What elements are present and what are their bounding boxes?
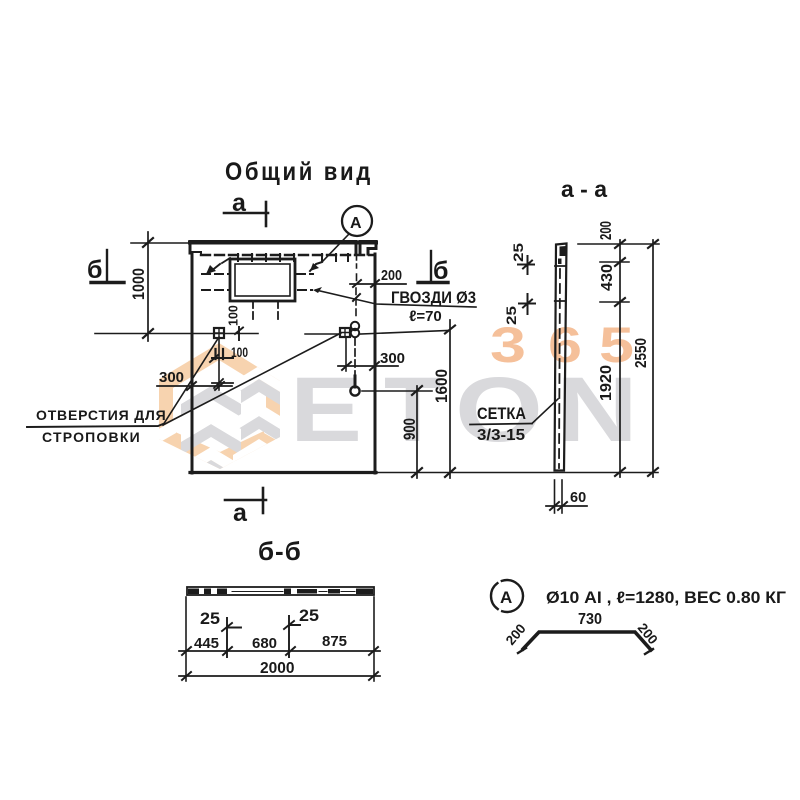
dim 1000 extension top (131, 242, 190, 244)
svg-text:Общий вид: Общий вид (225, 158, 373, 186)
dim 200 top right: line (350, 283, 406, 285)
detail A circle (491, 580, 523, 612)
setka leader (532, 399, 558, 424)
right loop square (340, 328, 350, 337)
opening rectangle outer (230, 259, 295, 301)
dim 900 vertical (416, 386, 418, 478)
dim 900 tick bottom (412, 468, 422, 477)
bb bar outline (187, 587, 374, 595)
panel right edge (374, 254, 377, 473)
leader to right loop (163, 333, 341, 425)
svg-text:730: 730 (578, 611, 602, 628)
bent bar hook left (518, 648, 526, 653)
dim 1600 vertical (449, 320, 451, 478)
aa ticks inner (615, 240, 625, 476)
svg-text:б-б: б-б (258, 536, 302, 566)
setka underline (470, 424, 532, 425)
aa ext 262 (600, 261, 629, 263)
dashed row y274 (202, 273, 230, 275)
svg-text:100: 100 (231, 345, 248, 360)
svg-text:ℓ=70: ℓ=70 (409, 308, 442, 325)
aa mesh dashed centerline (559, 269, 560, 468)
dim 300 left ticks (187, 382, 224, 390)
svg-text:875: 875 (322, 633, 347, 650)
bottom extension line (378, 472, 658, 474)
dashed arrow left (222, 258, 230, 263)
dashed stubs below opening (252, 301, 254, 322)
leader arrow zigzag (310, 262, 322, 271)
bb bar midline (232, 591, 355, 593)
svg-text:а: а (233, 499, 248, 527)
leader from circle A (322, 234, 349, 262)
section mark b right: bar (418, 281, 448, 284)
section mark b left: tick (106, 250, 108, 282)
otverstiya underline1 (27, 424, 163, 427)
dim 25 left tick (222, 618, 241, 657)
svg-text:2000: 2000 (260, 660, 294, 677)
bb ext right (373, 597, 375, 681)
watermark white chevrons (181, 366, 285, 478)
svg-text:А: А (350, 215, 362, 232)
dim 1000 tick top (143, 238, 153, 247)
svg-text:3/3-15: 3/3-15 (477, 427, 525, 444)
watermark wide white chevron (155, 419, 176, 445)
dim 300 right line (338, 365, 398, 367)
right loop rings (351, 322, 359, 330)
left loop bottom cross (212, 379, 233, 388)
dashed row y290 (202, 289, 230, 291)
svg-text:б: б (433, 257, 448, 285)
dim 900 tick top (412, 386, 422, 395)
hook extension line (362, 390, 432, 392)
watermark gray ETON letters (290, 359, 638, 461)
aa panel bar (555, 244, 567, 471)
section mark a bottom: line (225, 499, 266, 502)
leader to left loop (163, 337, 219, 425)
svg-text:а - а: а - а (561, 176, 607, 202)
aa dim 25 low tick (519, 294, 535, 314)
aa dim vertical inner (619, 240, 621, 477)
aa dim 25 top tick (518, 256, 534, 274)
svg-text:ОТВЕРСТИЯ ДЛЯ: ОТВЕРСТИЯ ДЛЯ (36, 407, 166, 423)
section mark a top: line (224, 212, 268, 215)
svg-text:СТРОПОВКИ: СТРОПОВКИ (42, 429, 141, 445)
right loop dashed vertical (354, 338, 356, 380)
nail head (350, 386, 359, 395)
dim 200 ticks (353, 280, 379, 287)
dim 1000 vertical line (147, 232, 149, 341)
left loop vertical (218, 338, 220, 390)
bent bar hook right (645, 649, 653, 654)
dim 300 left line (157, 385, 232, 387)
nails short ticks under band (238, 254, 348, 261)
aa bar top dark mark (560, 246, 567, 256)
aa ticks outer (648, 240, 658, 476)
bb bar dark fills (188, 589, 373, 595)
svg-text:900: 900 (401, 418, 419, 440)
svg-text:А: А (500, 588, 512, 607)
svg-text:25: 25 (504, 305, 519, 325)
svg-text:25: 25 (299, 607, 319, 625)
svg-text:СЕТКА: СЕТКА (477, 405, 526, 423)
bb dim1 ticks (182, 647, 378, 655)
dim 100 vert tick (235, 327, 243, 340)
notch centerline dashed (355, 243, 358, 319)
panel top edge thick (190, 241, 376, 245)
svg-text:300: 300 (159, 369, 184, 386)
section mark a bottom: tick (262, 488, 265, 513)
svg-text:25: 25 (200, 610, 220, 628)
dim 1600 tick bottom (445, 468, 455, 477)
aa bottom ext left (554, 480, 556, 513)
aa bottom ext right (561, 480, 563, 513)
detail circle A top (342, 206, 372, 236)
gvozdi leader arrow (313, 287, 322, 293)
svg-text:200: 200 (381, 267, 402, 284)
dim 300 right vertical (345, 337, 347, 371)
bb ext left (185, 597, 187, 681)
svg-text:ГВОЗДИ Ø3: ГВОЗДИ Ø3 (391, 288, 476, 307)
loops centerline (95, 333, 258, 335)
centerline segment left of right loop (305, 333, 340, 335)
aa dim 60 line (546, 505, 587, 507)
band bottom small step left (190, 252, 201, 255)
opening rectangle inner (235, 264, 290, 296)
aa ext 302 (600, 301, 629, 303)
left loop tee (210, 355, 233, 362)
svg-text:N: N (556, 359, 638, 461)
dim 300 right ticks (342, 362, 379, 370)
dim 25 right tick (284, 616, 300, 657)
hidden dashed line under band (201, 254, 375, 256)
aa dim vertical outer (652, 240, 654, 477)
svg-text:1600: 1600 (433, 369, 451, 403)
section mark b right: tick (430, 251, 432, 282)
svg-text:430: 430 (599, 264, 616, 291)
svg-text:445: 445 (194, 635, 219, 652)
dim 1600 tick top (445, 326, 455, 334)
svg-text:60: 60 (570, 490, 586, 506)
svg-text:1000: 1000 (130, 268, 148, 300)
aa dim 60 ticks (550, 502, 567, 510)
svg-text:680: 680 (252, 635, 277, 652)
svg-text:300: 300 (380, 350, 405, 367)
watermark white notch right (264, 419, 285, 445)
svg-text:1920: 1920 (598, 365, 615, 401)
svg-text:Ø10 АI , ℓ=1280, ВЕС 0.80 КГ: Ø10 АI , ℓ=1280, ВЕС 0.80 КГ (546, 589, 787, 607)
section mark b left: bar (91, 281, 124, 284)
bb dim line 2 (179, 675, 380, 677)
svg-text:200: 200 (598, 221, 615, 240)
dim 100 lower ticks (216, 349, 224, 359)
watermark hexagon ring (159, 343, 280, 469)
left loop square (214, 328, 224, 338)
aa bar division marks (555, 266, 566, 301)
dim 1000 tick bottom (143, 329, 153, 338)
panel left edge (191, 253, 194, 473)
svg-text:5: 5 (599, 317, 634, 373)
bb dim line 1 (179, 650, 380, 652)
svg-text:25: 25 (511, 242, 526, 262)
svg-text:E: E (290, 359, 362, 461)
right centerline (360, 331, 448, 335)
panel bottom edge (190, 471, 376, 474)
watermark orange 365 (490, 317, 634, 373)
slash on leader at dashed vertical (353, 294, 360, 301)
svg-text:б: б (87, 256, 102, 284)
svg-text:а: а (232, 189, 247, 217)
nail stem (354, 376, 357, 387)
aa top extension (578, 243, 659, 245)
bb dim2 ticks (182, 672, 378, 680)
watermark gray chevrons (181, 379, 285, 491)
svg-text:100: 100 (227, 305, 241, 326)
panel top band outline (190, 242, 376, 255)
svg-text:2550: 2550 (633, 338, 650, 368)
section mark a top: tick (265, 202, 268, 226)
gvozdi leader line (316, 290, 476, 307)
bent bar (523, 632, 651, 650)
